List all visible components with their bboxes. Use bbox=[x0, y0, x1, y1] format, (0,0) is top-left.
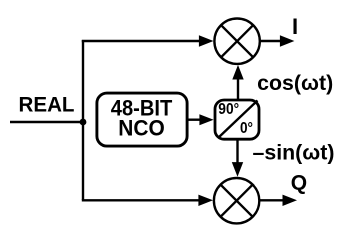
mixer: Q multiplier circle with X bbox=[214, 178, 259, 223]
svg-text:cos(ωt): cos(ωt) bbox=[257, 72, 333, 95]
svg-text:90°: 90° bbox=[218, 101, 239, 118]
wire: splitter 0deg output down to Q mixer with arrowhead bbox=[232, 140, 243, 177]
wire: I output arrow bbox=[261, 35, 295, 46]
svg-text:–sin(ωt): –sin(ωt) bbox=[253, 142, 335, 165]
block: 90/0 phase splitter bbox=[215, 100, 259, 139]
node: input junction dot bbox=[80, 119, 87, 126]
svg-text:NCO: NCO bbox=[118, 115, 165, 140]
wire: vertical branch line bbox=[82, 40, 84, 200]
mixer: I multiplier circle with X bbox=[214, 19, 259, 64]
svg-text:0°: 0° bbox=[240, 120, 253, 137]
block U1: 48-BIT NCO bbox=[97, 93, 187, 146]
wire: splitter 90deg output up to I mixer with arrowhead bbox=[232, 65, 243, 99]
wire: top branch to I mixer with arrowhead bbox=[82, 35, 214, 46]
svg-text:I: I bbox=[292, 14, 298, 39]
svg-text:REAL: REAL bbox=[19, 94, 75, 117]
wire: NCO output to phase splitter with arrowhead bbox=[187, 114, 214, 125]
wire: Q output arrow bbox=[260, 195, 297, 206]
svg-text:Q: Q bbox=[291, 172, 307, 195]
wire: REAL input horizontal bbox=[10, 121, 83, 123]
wire: bottom branch to Q mixer with arrowhead bbox=[82, 195, 213, 206]
